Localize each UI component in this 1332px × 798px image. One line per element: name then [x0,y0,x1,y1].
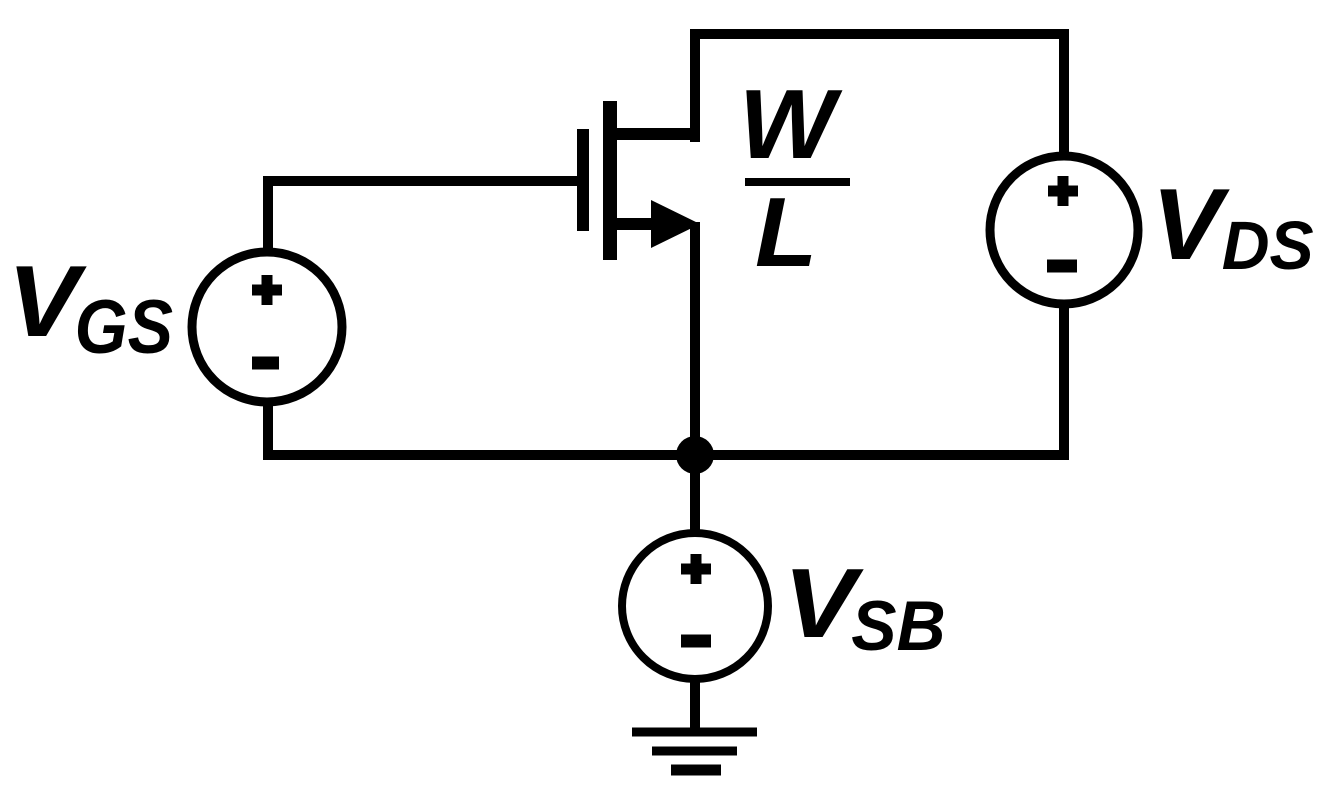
voltage source VDS circle [990,156,1138,304]
transistor M1 (NMOS, 4-terminal) gate bar [577,129,589,231]
VDS minus sign [1047,260,1077,273]
ground symbol [632,732,757,770]
label VSB [783,549,945,665]
VGS plus sign [252,275,282,305]
transistor M1 source arrow (pointing to source terminal) [651,200,700,248]
svg-text:GS: GS [75,286,173,370]
voltage source VSB circle [622,533,768,679]
label VDS [1152,168,1314,284]
label VGS [7,245,173,370]
svg-text:L: L [755,178,817,288]
wire: source/bulk node - from MOSFET source down through junction to VSB + terminal [690,222,700,534]
node: source-bulk junction dot [676,436,714,474]
transistor M1 channel bar [603,101,617,260]
wire: drain node - from MOSFET drain up, across top, down to VDS + terminal [695,34,1064,155]
VSB minus sign [681,635,711,648]
svg-text:W: W [739,70,843,180]
wire: bottom net - VGS - terminal down, across bottom, up to VDS - terminal [268,304,1064,455]
svg-text:DS: DS [1222,208,1314,285]
VDS plus sign [1048,176,1078,206]
svg-text:SB: SB [851,586,945,665]
svg-text:V: V [1152,168,1231,281]
wire: VSB - terminal down to ground [690,678,700,731]
voltage source VGS circle [192,252,342,402]
VSB plus sign [681,554,711,584]
wire: gate node - from VGS + terminal up and right to MOSFET gate [268,181,583,250]
transistor M1 source stub [610,218,660,230]
transistor M1 drain stub [610,128,695,140]
value label W/L (aspect ratio of M1) [739,70,850,288]
VGS minus sign [252,357,279,370]
